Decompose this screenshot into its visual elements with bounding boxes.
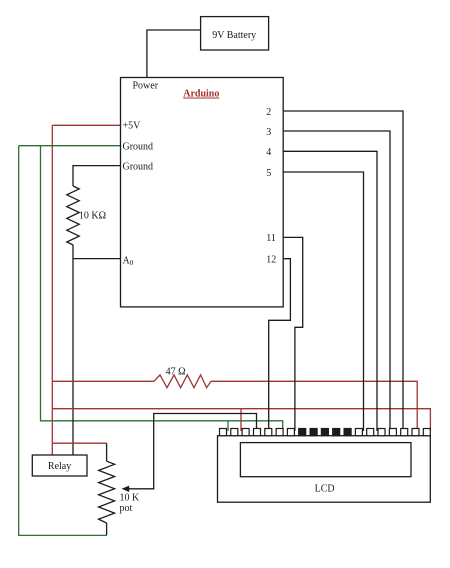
svg-text:47 Ω: 47 Ω [166, 366, 186, 377]
pot wiper wire to LCD contrast pin [126, 414, 257, 489]
wire R1 bottom to A0 pin [73, 245, 121, 259]
wire Arduino pin 12 to LCD [269, 259, 291, 431]
wire red second branch to LCD rightmost pin [52, 409, 430, 431]
LCD module [218, 436, 431, 503]
wire battery to Arduino Power pin [147, 30, 201, 78]
wire red branch through 47 Ohm to LCD pin 18 [52, 380, 154, 382]
wire red +5V vertical rail down to relay [51, 125, 53, 455]
wire Arduino pin 3 to LCD [283, 131, 390, 431]
svg-text:+5V: +5V [123, 121, 142, 132]
wire Arduino pin 4 to LCD [283, 151, 377, 431]
wire pot top lead [106, 443, 108, 461]
wire ground (green) from Arduino left [19, 145, 121, 147]
battery B1 9V [201, 17, 269, 50]
wire Arduino pin 5 to LCD [283, 172, 363, 431]
wire ground 2 (black) from Arduino to resistor R1 top [73, 166, 121, 186]
wire red branch to pot top [52, 442, 106, 444]
wire red drop to LCD pin 3 [240, 409, 242, 431]
svg-text:12: 12 [266, 255, 276, 266]
Arduino U1 [121, 78, 284, 307]
wire green second vertical to LCD [41, 146, 283, 431]
svg-text:11: 11 [266, 233, 276, 244]
svg-text:Ground: Ground [123, 142, 154, 153]
svg-text:Power: Power [133, 80, 159, 91]
pot wiper arrow head [122, 486, 130, 492]
wire A0 node down to relay [72, 259, 74, 455]
wire Arduino pin 2 to LCD [283, 111, 403, 431]
svg-text:Ground: Ground [123, 162, 154, 173]
svg-text:10 KΩ: 10 KΩ [79, 210, 106, 221]
wire red from R2 right to LCD pin drop [211, 381, 417, 431]
resistor R1 10 KOhm [67, 186, 79, 245]
potentiometer R3 10 K pot [99, 461, 115, 523]
LCD pin header (19 pads, 5 filled) [220, 429, 431, 436]
svg-text:Relay: Relay [48, 461, 71, 472]
wire Arduino pin 11 to LCD [283, 237, 303, 431]
wire +5V (red) from Arduino left to vertical rail [52, 124, 120, 126]
svg-text:2: 2 [266, 107, 271, 118]
svg-text:9V Battery: 9V Battery [212, 30, 256, 41]
wire pot bottom lead [106, 523, 108, 535]
svg-text:Arduino: Arduino [183, 89, 219, 100]
svg-text:LCD: LCD [315, 484, 335, 495]
resistor R2 47 Ohm (red zigzag) [154, 375, 211, 388]
svg-text:pot: pot [120, 503, 133, 514]
wire green branch drop to LCD pin 2 [227, 421, 229, 431]
relay K1 [32, 455, 87, 476]
wire green left vertical to pot bottom [19, 146, 107, 536]
svg-text:4: 4 [266, 147, 271, 158]
svg-text:5: 5 [266, 168, 271, 179]
svg-text:3: 3 [266, 127, 271, 138]
